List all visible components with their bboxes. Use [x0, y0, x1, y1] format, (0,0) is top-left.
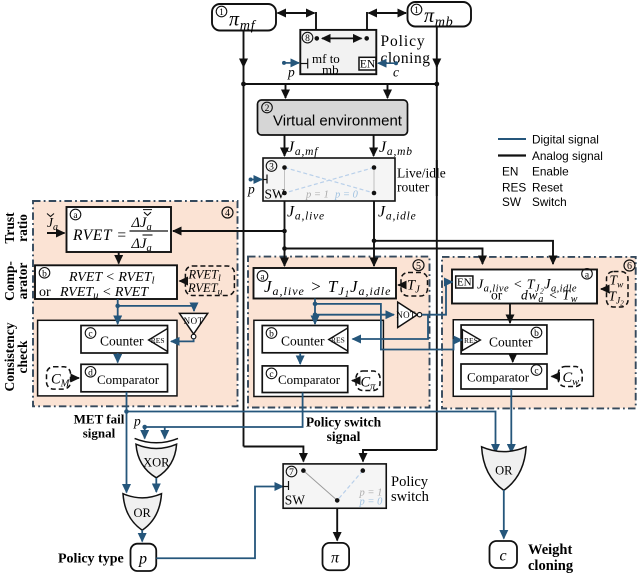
wire horizontal rail y=84 [241, 82, 439, 87]
live/idle router box (3) [263, 158, 395, 202]
svg-text:OR: OR [495, 464, 513, 478]
wire b output net (blue) with junction [115, 299, 194, 324]
svg-text:b: b [534, 329, 539, 339]
wire OR output to p box [141, 530, 143, 542]
label MET fail signal [74, 412, 125, 441]
wire RVET to comparator b [118, 252, 120, 264]
svg-text:c: c [534, 367, 538, 377]
svg-text:7: 7 [289, 468, 294, 478]
wire a6 to counter6 [509, 304, 511, 324]
svg-text:Reset: Reset [532, 181, 564, 195]
label Live/idle router [397, 166, 446, 195]
svg-text:4: 4 [225, 208, 230, 219]
wire comparator6 output to OR2 [510, 389, 512, 453]
block (5) dash-dot container [248, 257, 430, 408]
svg-text:or: or [39, 285, 51, 300]
policy cloning box (8) [300, 30, 376, 77]
wire pi_mb down long analog line [436, 26, 438, 450]
wire switch 7 to pi box [336, 508, 338, 540]
node box p (policy type) [131, 544, 157, 571]
svg-text:Enable: Enable [532, 165, 569, 179]
counter box (c) [81, 326, 168, 354]
node c stub into cloning EN [378, 61, 399, 79]
SECTION: legend [498, 133, 603, 210]
svg-text:mb: mb [322, 62, 339, 77]
svg-text:p: p [138, 551, 147, 568]
label Policy switch signal [306, 415, 382, 445]
svg-text:NOT: NOT [396, 310, 416, 320]
svg-text:b: b [42, 270, 47, 280]
label Weight cloning [528, 542, 574, 574]
counter box (b) of block 6 [461, 325, 547, 354]
param box C_M (dashed) [47, 367, 80, 390]
svg-text:Comparator: Comparator [278, 372, 341, 387]
svg-text:MET fail: MET fail [74, 412, 125, 427]
svg-text:Digital signal: Digital signal [532, 133, 599, 147]
inner container consistency check [38, 320, 177, 396]
svg-text:or: or [491, 288, 503, 303]
legend RES reset [502, 181, 564, 195]
wire policy switch net: comparator5c down and left to XOR [142, 393, 302, 439]
svg-text:3: 3 [269, 163, 274, 173]
OR gate left [123, 494, 162, 531]
wire OR2 output to c box [503, 490, 505, 539]
comparator box (d) [81, 364, 168, 392]
svg-text:cloning: cloning [528, 558, 574, 574]
wire XOR output to OR [155, 478, 157, 492]
svg-text:c: c [269, 370, 273, 380]
label Consistency check (rotated) [2, 322, 30, 391]
NOT gate (block 5) [396, 302, 422, 327]
NOT gate (block 4) [180, 313, 208, 339]
node p stub into router [247, 178, 262, 197]
wire pi_mf to cloning (bidirectional) [278, 12, 317, 38]
svg-text:XOR: XOR [143, 456, 170, 470]
param box C_pi (dashed) [352, 371, 380, 393]
svg-text:RVET =: RVET = [72, 227, 127, 244]
inner container box of block 5 [254, 320, 384, 396]
svg-text:Policy: Policy [381, 33, 426, 50]
svg-text:EN: EN [502, 165, 518, 179]
wire rail to virtual environment right [387, 84, 389, 98]
SECTION: cross-block wires overlay [315, 282, 462, 350]
wire counter to comparator d [117, 353, 119, 363]
label Trust ratio (rotated) [2, 212, 30, 244]
comparator box (b) RVET thresholds [35, 265, 177, 301]
wire counter5 to comparator5 [299, 353, 301, 364]
wire router output J_a,idle down [372, 201, 377, 266]
svg-text:RES: RES [464, 336, 478, 345]
svg-text:p: p [287, 65, 295, 80]
wire J_a,live to RVET box [173, 230, 285, 232]
svg-text:Switch: Switch [532, 195, 567, 209]
svg-text:c: c [393, 65, 399, 80]
param box T_J (dashed) [398, 273, 427, 297]
svg-text:signal: signal [83, 426, 116, 441]
svg-text:d: d [88, 369, 93, 379]
svg-text:check: check [15, 340, 30, 373]
label Comparator (rotated) [2, 261, 30, 301]
svg-text:Analog signal: Analog signal [532, 149, 603, 163]
param box RVET_l RVET_u (dashed) [180, 266, 235, 298]
wire NOT output to counter5 RES [353, 315, 429, 339]
svg-text:p = 0: p = 0 [334, 190, 359, 201]
param box T_w T_J2 (dashed) [601, 272, 628, 308]
svg-text:OR: OR [134, 506, 152, 520]
block (4) dash-dot container [33, 201, 238, 406]
wire comparator5a to counter6 RES (blue) [315, 304, 462, 350]
wire MET fail net: comparator d down to OR and right to OR2 [124, 392, 495, 493]
label Policy switch [391, 474, 430, 505]
svg-text:8: 8 [305, 34, 310, 44]
svg-text:Virtual environment: Virtual environment [273, 113, 403, 130]
label Policy cloning [381, 33, 431, 67]
policy box pi_mb (1) [408, 2, 472, 30]
svg-text:EN: EN [360, 59, 376, 71]
wire router output J_a,live down [282, 201, 287, 266]
comparator box (a) of block 6 [452, 269, 597, 306]
svg-text:c: c [88, 330, 92, 340]
svg-text:dwa < Tw: dwa < Tw [521, 288, 578, 306]
wire NOT output to counter RES [171, 339, 194, 341]
svg-text:p = 1: p = 1 [305, 190, 329, 201]
svg-text:Live/idle: Live/idle [397, 166, 446, 181]
legend digital signal [498, 133, 599, 147]
XOR gate [135, 438, 178, 477]
svg-text:arator: arator [15, 263, 30, 300]
wire pi_mf down long analog line [243, 30, 245, 447]
svg-text:Comparator: Comparator [97, 372, 160, 387]
policy switch box (7) [283, 464, 386, 508]
OR gate right [482, 447, 526, 491]
svg-text:RES: RES [151, 336, 165, 345]
SECTION: trust block 4 [2, 207, 234, 396]
node box c (weight cloning) [490, 541, 518, 568]
SECTION: top policy boxes [173, 2, 553, 450]
svg-text:RES: RES [331, 335, 345, 344]
svg-text:SW: SW [265, 187, 286, 202]
wire a output down to counter (blue) [313, 299, 318, 325]
svg-text:signal: signal [327, 429, 361, 444]
SECTION: right block 6 [452, 260, 635, 396]
svg-text:1: 1 [219, 8, 224, 18]
RVET box (a) with formula [67, 207, 172, 254]
svg-text:SW: SW [285, 493, 306, 508]
svg-text:2: 2 [265, 104, 270, 114]
wire NOT5 output to EN of block6 (blue) [422, 282, 453, 315]
node p stub into cloning [282, 61, 299, 80]
comparator box (c) of block 6 [461, 364, 547, 389]
SECTION: block containers [33, 201, 636, 408]
SECTION: bottom [58, 389, 574, 574]
svg-text:cloning: cloning [381, 50, 431, 67]
svg-text:Weight: Weight [528, 542, 572, 558]
svg-text:p = 0: p = 0 [359, 497, 384, 508]
svg-text:1: 1 [414, 6, 419, 16]
svg-text:RVETu < RVET: RVETu < RVET [59, 285, 149, 302]
svg-text:switch: switch [391, 489, 430, 505]
wire J_a,live to block6 input a [285, 249, 483, 265]
SECTION: middle block 5 [254, 260, 429, 397]
svg-text:Comparator: Comparator [467, 370, 530, 385]
svg-text:p: p [247, 182, 255, 197]
wire VE to router left J_a,mf [284, 135, 286, 156]
wire counter6 to comparator6 [512, 354, 514, 362]
inner container box of block 6 [453, 320, 593, 397]
virtual environment box (2) [258, 100, 408, 135]
block (6) dash-dot container [442, 257, 636, 409]
svg-text:Counter: Counter [100, 334, 144, 349]
svg-text:Policy type: Policy type [58, 552, 124, 567]
svg-text:π: π [331, 550, 340, 567]
svg-text:Counter: Counter [281, 334, 325, 349]
svg-text:6: 6 [627, 261, 632, 272]
wire a to NOT gate input [315, 314, 394, 316]
node box pi [323, 543, 350, 570]
legend SW switch [502, 195, 567, 209]
svg-text:SW: SW [502, 195, 522, 209]
wire analog pi_mb line into switch 7 [363, 450, 437, 462]
wire cloning to pi_mb (bidirectional) [367, 12, 406, 38]
svg-text:router: router [397, 180, 430, 195]
comparator box (a) of block 5 [254, 268, 397, 299]
legend EN enable [502, 165, 569, 179]
svg-text:Policy: Policy [391, 474, 429, 490]
wire pi_mb line over router label [436, 160, 438, 196]
legend analog signal [498, 149, 603, 163]
param box C_w (dashed) [552, 367, 583, 389]
svg-text:Policy switch: Policy switch [306, 415, 382, 430]
wire VE to router right J_a,mb [373, 135, 375, 156]
node J_a check input stub [47, 214, 65, 234]
policy box pi_mf (1) [212, 4, 276, 34]
svg-text:Counter: Counter [489, 335, 533, 350]
svg-text:RES: RES [502, 181, 526, 195]
wire analog pi_mf line into switch 7 [244, 447, 304, 462]
wire p box to switch SW (blue) [156, 487, 283, 559]
svg-text:5: 5 [416, 261, 421, 272]
svg-text:p: p [133, 414, 141, 429]
wire rail to virtual environment left [285, 84, 287, 98]
svg-text:ratio: ratio [15, 214, 30, 242]
svg-text:c: c [500, 548, 507, 565]
counter box (b) of block 5 [262, 326, 348, 353]
comparator box (c) of block 5 [262, 366, 348, 393]
svg-text:EN: EN [457, 277, 472, 289]
wire J_a,idle to block6 input b [374, 241, 553, 264]
svg-text:NOT: NOT [184, 316, 204, 326]
svg-text:b: b [269, 330, 274, 340]
